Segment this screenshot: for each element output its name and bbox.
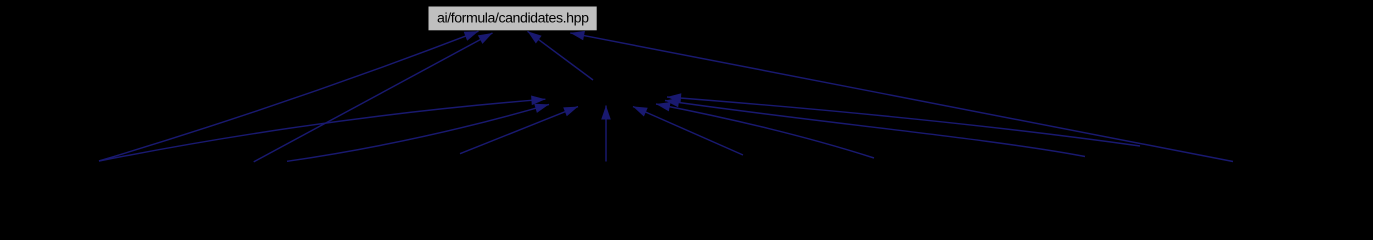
svg-text:ai/formula/candidates.hpp: ai/formula/candidates.hpp <box>437 11 589 27</box>
